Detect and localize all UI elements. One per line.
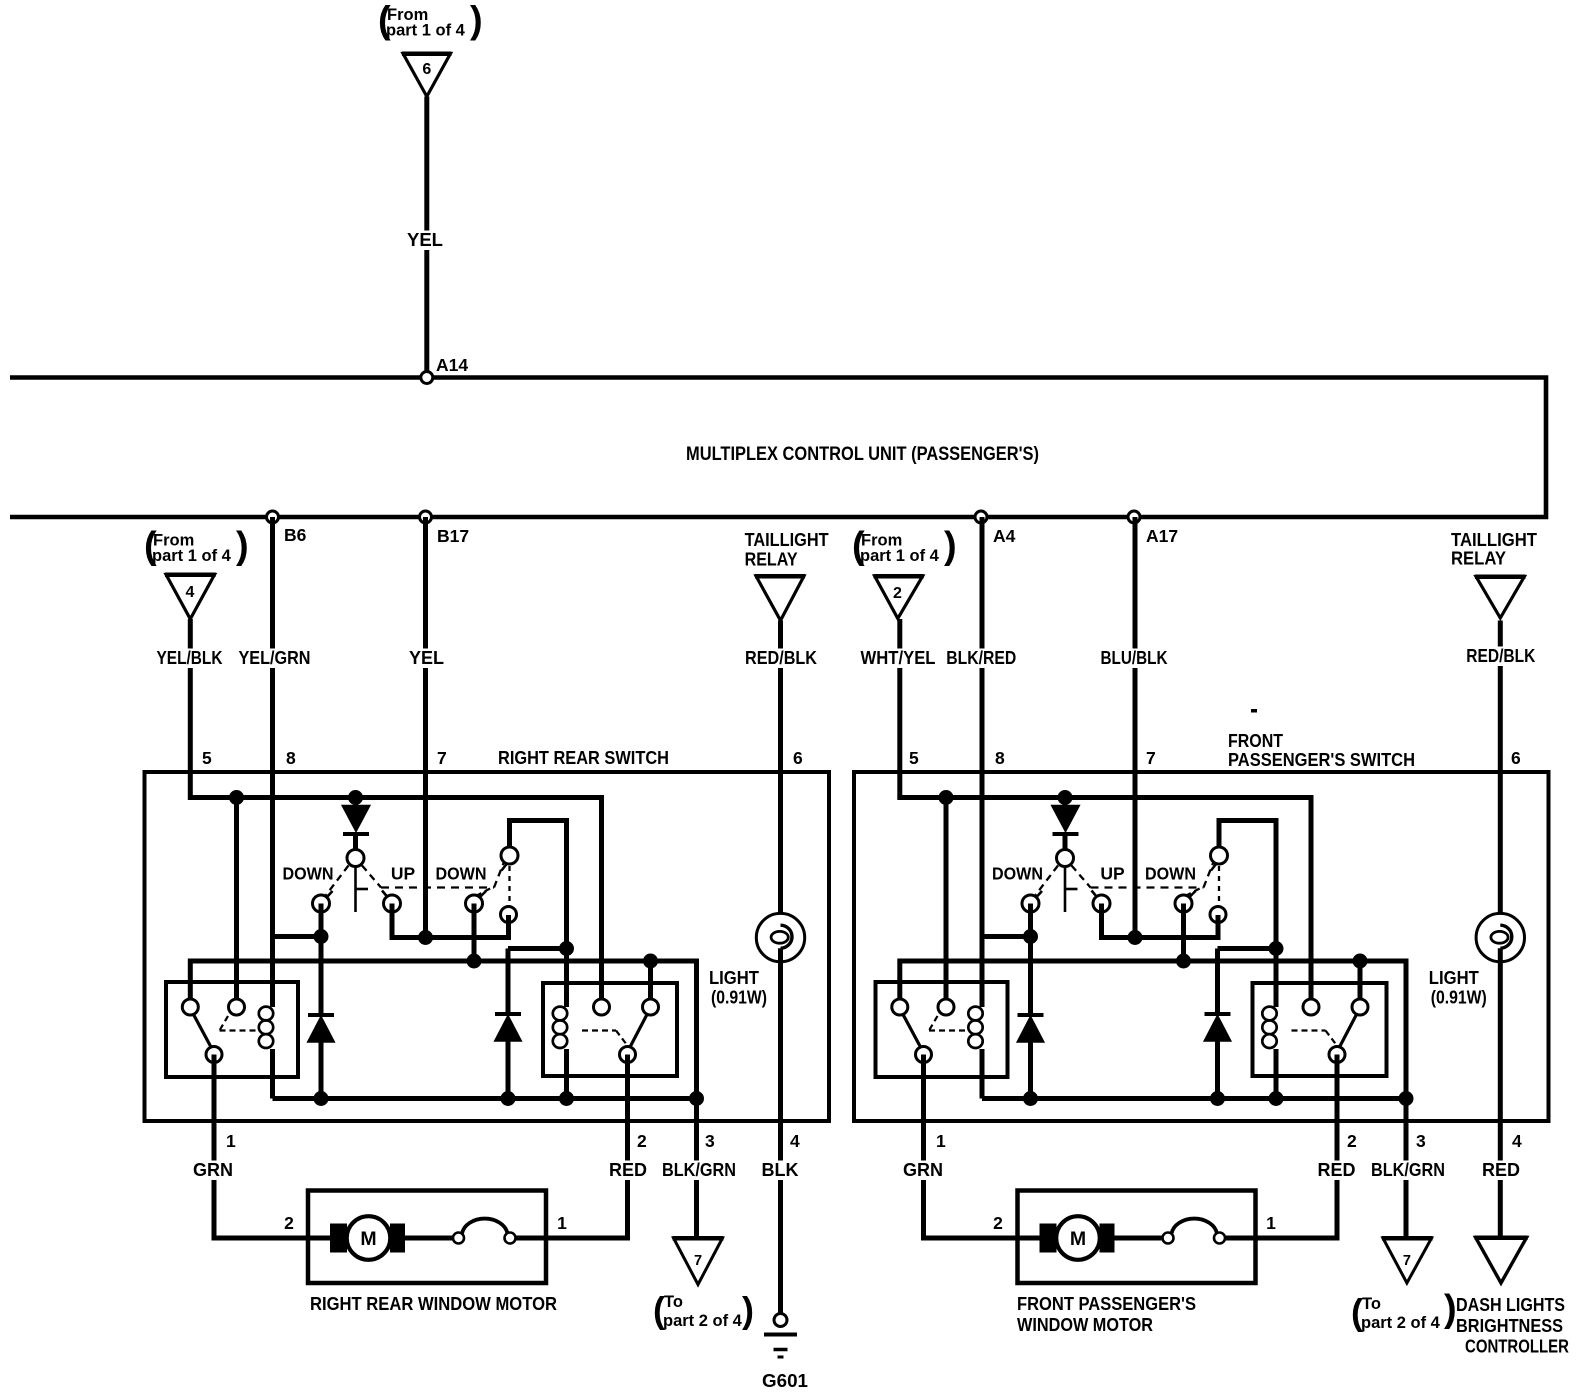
taillight relay triangle right <box>1476 577 1524 619</box>
svg-text:part 1 of 4: part 1 of 4 <box>152 547 232 565</box>
right rear window motor internal wire <box>405 1236 454 1241</box>
wire pin 8 right rear switch (from MCU to relay1 coil) <box>270 517 275 1007</box>
svg-text:GRN: GRN <box>903 1160 943 1180</box>
svg-text:B6: B6 <box>284 525 307 545</box>
wire lamp to pin 4 right rear switch <box>778 948 783 1313</box>
wire pin 1 front passenger's switch (relay1 common to motor) <box>924 1055 1043 1239</box>
wire pin 2 front passenger's switch (relay2 common to motor) <box>1256 1055 1338 1239</box>
svg-text:6: 6 <box>1511 748 1521 768</box>
label RED right (pin4) <box>1480 1161 1522 1181</box>
wire pin 5 front passenger's switch (from connector) + bus to relay 2 left contact <box>900 619 1311 1003</box>
toggle 1 common contact right rear switch <box>347 850 364 867</box>
relay 1 fixed contact right rear switch <box>229 999 245 1015</box>
junction common bus / relay2 contact right rear switch <box>643 954 658 969</box>
svg-text:2: 2 <box>893 585 902 602</box>
label GRN right <box>901 1161 945 1181</box>
svg-text:To: To <box>1362 1295 1381 1313</box>
junction on pin5 bus to relay 1 fixed contact <box>939 790 954 805</box>
wire pin 8 front passenger's switch (from MCU to relay1 coil) <box>980 517 985 1007</box>
relay 2 right contact front passenger's switch <box>1352 999 1368 1015</box>
relay 1 left contact front passenger's switch <box>892 999 908 1015</box>
relay 2 common contact front passenger's switch <box>1329 1047 1345 1063</box>
toggle 1 common contact front passenger's switch <box>1057 850 1074 867</box>
junction toggle1-DOWN / pin8 branch right rear switch <box>314 929 329 944</box>
front passenger's window motor internal wire <box>1115 1236 1164 1241</box>
wire pin 5 right rear switch (from connector) + bus to relay 2 left contact <box>190 619 601 1003</box>
connector triangle 2 <box>875 576 923 619</box>
label BLK left <box>762 1161 798 1181</box>
relay 2 box front passenger's switch <box>1253 983 1387 1076</box>
label RED right (pin2) <box>1316 1161 1358 1181</box>
toggle 2 upper contact front passenger's switch <box>1211 864 1217 871</box>
relay 1 dashed link right rear switch <box>220 1016 229 1031</box>
toggle mechanical dashed linkage front passenger's switch <box>1036 866 1059 896</box>
wire pin 6 front passenger's switch (taillight relay to lamp) <box>1498 621 1503 927</box>
ground G601 <box>774 1314 787 1327</box>
svg-text:7: 7 <box>437 748 447 768</box>
junction common bus / relay2 contact front passenger's switch <box>1353 954 1368 969</box>
toggle 1 DOWN contact right rear switch <box>327 891 333 897</box>
svg-text:1: 1 <box>226 1131 236 1151</box>
front passenger's window motor left brush <box>1040 1224 1057 1253</box>
stray mark above front passenger label <box>1251 709 1257 713</box>
svg-text:(0.91W): (0.91W) <box>711 987 767 1008</box>
right rear window motor left brush <box>330 1224 347 1253</box>
right rear switch box <box>145 772 830 1121</box>
rail junction coil2 right rear switch <box>559 1091 574 1106</box>
svg-text:BLK/RED: BLK/RED <box>946 648 1016 668</box>
toggle 1 actuator link right rear switch <box>354 867 357 913</box>
label BLK/GRN right <box>1368 1161 1448 1181</box>
svg-text:YEL/GRN: YEL/GRN <box>239 648 311 668</box>
svg-text:YEL/BLK: YEL/BLK <box>157 648 223 668</box>
svg-text:RELAY: RELAY <box>745 550 798 570</box>
label YEL (pin7 left) <box>407 649 447 669</box>
toggle 1 UP contact front passenger's switch <box>1092 891 1097 897</box>
rail junction diode2 front passenger's switch <box>1210 1091 1225 1106</box>
svg-text:BLU/BLK: BLU/BLK <box>1101 648 1168 668</box>
svg-text:A14: A14 <box>436 355 468 375</box>
svg-text:A17: A17 <box>1146 526 1178 546</box>
front passenger's window motor thermal breaker <box>1163 1233 1174 1244</box>
toggle 2 lower contact right rear switch <box>501 907 517 923</box>
front passenger's window motor box <box>1018 1191 1256 1284</box>
relay 2 dashed link front passenger's switch <box>1292 1029 1326 1031</box>
wire from toggle2 DOWN contact to common bus right rear switch <box>472 904 477 962</box>
toggle 2 DOWN contact front passenger's switch <box>1190 891 1196 897</box>
left clamping diode (cathode up) right rear switch <box>308 1013 334 1017</box>
svg-text:1: 1 <box>936 1131 946 1151</box>
svg-text:5: 5 <box>202 748 212 768</box>
wire toggle2 upper loop to relay2 coil front passenger's switch <box>1219 821 1276 1008</box>
right rear window motor internal wire right <box>516 1236 547 1241</box>
svg-text:BLK: BLK <box>762 1160 799 1180</box>
svg-text:WHT/YEL: WHT/YEL <box>861 648 936 668</box>
svg-text:DOWN: DOWN <box>283 864 334 884</box>
illumination lamp front passenger's switch <box>1476 913 1524 961</box>
label RED left <box>607 1161 649 1181</box>
common bus wire right rear switch <box>190 961 696 1251</box>
svg-text:): ) <box>742 1290 754 1331</box>
svg-text:A4: A4 <box>993 526 1016 546</box>
svg-text:YEL: YEL <box>409 648 444 668</box>
relay 1 armature blade front passenger's switch <box>903 1014 922 1049</box>
relay 1 box right rear switch <box>166 982 298 1077</box>
relay 1 coil front passenger's switch <box>968 1007 982 1021</box>
svg-text:TAILLIGHT: TAILLIGHT <box>1451 530 1537 550</box>
svg-text:RED: RED <box>1482 1160 1520 1180</box>
relay 2 coil right rear switch <box>553 1007 567 1021</box>
right clamping diode (cathode up) right rear switch <box>506 949 511 1015</box>
junction on pin5 bus to toggle 1 diode <box>1058 790 1073 805</box>
junction pin7 / UP bus right rear switch <box>418 930 433 945</box>
right rear window motor right brush <box>390 1224 405 1253</box>
relay 2 dashed link right rear switch <box>582 1029 616 1031</box>
relay 2 box right rear switch <box>543 983 677 1076</box>
node A17 <box>1128 511 1140 523</box>
junction on pin5 bus to relay 1 fixed contact <box>229 790 244 805</box>
svg-text:BRIGHTNESS: BRIGHTNESS <box>1456 1316 1563 1336</box>
relay 2 left contact right rear switch <box>594 999 610 1015</box>
node A4 <box>975 511 987 523</box>
svg-text:4: 4 <box>1512 1131 1522 1151</box>
junction common bus / toggle2-DOWN front passenger's switch <box>1176 954 1191 969</box>
relay 2 common contact right rear switch <box>620 1047 636 1063</box>
svg-text:5: 5 <box>909 748 919 768</box>
svg-text:part 1 of 4: part 1 of 4 <box>860 547 940 565</box>
svg-text:RED: RED <box>609 1160 647 1180</box>
svg-text:): ) <box>236 525 249 567</box>
toggle 1 actuator link front passenger's switch <box>1064 867 1067 913</box>
wire YEL from connector 6 to node A14 <box>424 97 429 378</box>
svg-text:8: 8 <box>995 748 1005 768</box>
multiplex control unit (passenger's) box <box>10 378 1546 518</box>
toggle 2 lower contact front passenger's switch <box>1210 907 1226 923</box>
relay 1 left contact right rear switch <box>182 999 198 1015</box>
bottom rail wire front passenger's switch <box>982 1096 1406 1101</box>
wire from toggle2 DOWN contact to common bus front passenger's switch <box>1181 904 1186 962</box>
diode (toggle 1 feed, cathode down) front passenger's switch <box>1053 806 1079 831</box>
junction loop / diode2 branch front passenger's switch <box>1269 941 1284 956</box>
node B6 <box>267 511 279 523</box>
svg-text:TAILLIGHT: TAILLIGHT <box>745 530 829 550</box>
diode (toggle 1 feed, cathode down) right rear switch <box>343 806 369 831</box>
svg-text:DOWN: DOWN <box>1145 864 1196 884</box>
svg-text:YEL: YEL <box>407 229 443 250</box>
svg-text:RED/BLK: RED/BLK <box>745 648 817 668</box>
svg-text:GRN: GRN <box>193 1160 233 1180</box>
connector triangle 6 <box>403 54 451 97</box>
wire pin 7 front passenger's switch (from MCU) <box>1133 517 1138 938</box>
wire pin 6 right rear switch (taillight relay to lamp) <box>778 621 783 927</box>
svg-text:7: 7 <box>1146 748 1156 768</box>
svg-text:BLK/GRN: BLK/GRN <box>1371 1160 1445 1180</box>
svg-text:2: 2 <box>993 1213 1003 1233</box>
svg-text:To: To <box>664 1293 683 1311</box>
bottom rail wire right rear switch <box>273 1096 697 1101</box>
svg-text:MULTIPLEX CONTROL UNIT (PASSEN: MULTIPLEX CONTROL UNIT (PASSENGER'S) <box>686 444 1039 465</box>
label RED/BLK left <box>742 649 820 669</box>
svg-text:BLK/GRN: BLK/GRN <box>662 1160 736 1180</box>
relay 2 right contact right rear switch <box>643 999 659 1015</box>
svg-text:2: 2 <box>284 1213 294 1233</box>
junction pin7 / UP bus front passenger's switch <box>1128 930 1143 945</box>
rail junction diode1 front passenger's switch <box>1023 1091 1038 1106</box>
svg-text:RED: RED <box>1317 1160 1355 1180</box>
rail junction diode1 right rear switch <box>314 1091 329 1106</box>
svg-text:RIGHT REAR SWITCH: RIGHT REAR SWITCH <box>498 748 669 768</box>
node A14 <box>421 372 433 384</box>
front passenger's window motor right brush <box>1100 1224 1115 1253</box>
svg-text:6: 6 <box>793 748 803 768</box>
right clamping diode (cathode up) front passenger's switch <box>1215 949 1220 1015</box>
wire from toggle1 DOWN contact through left diode to rail right rear switch <box>319 904 324 1016</box>
junction common bus to pin 3 front passenger's switch <box>1399 1091 1414 1106</box>
junction toggle1-DOWN / pin8 branch front passenger's switch <box>1023 929 1038 944</box>
svg-text:M: M <box>360 1228 376 1250</box>
svg-text:part 2 of 4: part 2 of 4 <box>663 1312 743 1330</box>
label BLU/BLK <box>1098 649 1171 669</box>
relay 1 common contact front passenger's switch <box>916 1047 932 1063</box>
relay 1 armature blade right rear switch <box>193 1014 212 1049</box>
label GRN left <box>191 1161 235 1181</box>
left clamping diode (cathode up) front passenger's switch <box>1018 1013 1044 1017</box>
svg-text:G601: G601 <box>762 1370 808 1391</box>
rail junction diode2 right rear switch <box>501 1091 516 1106</box>
wire toggle2 upper loop to relay2 coil right rear switch <box>510 821 567 1008</box>
relay 2 armature blade front passenger's switch <box>1339 1014 1357 1049</box>
svg-text:PASSENGER'S SWITCH: PASSENGER'S SWITCH <box>1228 750 1415 770</box>
svg-text:M: M <box>1070 1228 1086 1250</box>
svg-text:4: 4 <box>790 1131 800 1151</box>
relay 1 box front passenger's switch <box>876 982 1008 1077</box>
svg-text:WINDOW MOTOR: WINDOW MOTOR <box>1017 1315 1153 1335</box>
svg-text:6: 6 <box>422 61 431 78</box>
svg-text:RED/BLK: RED/BLK <box>1466 646 1535 666</box>
wire pin 2 right rear switch (relay2 common to motor) <box>546 1055 628 1239</box>
label BLK/GRN left <box>659 1161 739 1181</box>
taillight relay triangle left <box>756 576 804 621</box>
svg-text:): ) <box>470 0 483 42</box>
svg-text:2: 2 <box>1347 1131 1357 1151</box>
wire lamp to pin 4 front passenger's switch <box>1498 948 1503 1248</box>
label WHT/YEL <box>858 649 939 669</box>
toggle 2 upper contact right rear switch <box>502 864 508 871</box>
connector triangle 7 right <box>1383 1238 1432 1283</box>
svg-text:RELAY: RELAY <box>1451 549 1506 569</box>
label RED/BLK right <box>1463 647 1538 667</box>
front passenger's window motor armature M <box>1056 1216 1100 1260</box>
relay 2 coil front passenger's switch <box>1262 1007 1276 1021</box>
svg-text:): ) <box>1444 1288 1457 1330</box>
junction on pin5 bus to toggle 1 diode <box>348 790 363 805</box>
svg-text:3: 3 <box>705 1131 715 1151</box>
right rear window motor armature M <box>347 1216 391 1260</box>
svg-text:RIGHT REAR WINDOW MOTOR: RIGHT REAR WINDOW MOTOR <box>310 1294 557 1314</box>
svg-text:4: 4 <box>186 584 195 601</box>
label YEL/GRN <box>236 649 314 669</box>
svg-text:1: 1 <box>557 1213 567 1233</box>
svg-text:B17: B17 <box>437 526 469 546</box>
relay 1 coil right rear switch <box>259 1007 273 1021</box>
label YEL <box>404 231 446 251</box>
wire from toggle1 UP contact to toggle2 lower contact front passenger's switch <box>1102 904 1219 938</box>
svg-text:DOWN: DOWN <box>436 864 487 884</box>
label BLK/RED <box>943 649 1019 669</box>
svg-text:DOWN: DOWN <box>992 864 1043 884</box>
svg-text:part 1 of 4: part 1 of 4 <box>386 22 466 40</box>
svg-text:): ) <box>944 525 957 567</box>
junction common bus to pin 3 right rear switch <box>689 1091 704 1106</box>
svg-text:FRONT PASSENGER'S: FRONT PASSENGER'S <box>1017 1294 1196 1314</box>
svg-text:7: 7 <box>1403 1253 1411 1269</box>
dash lights brightness controller connector triangle <box>1476 1238 1527 1284</box>
toggle 1 UP contact right rear switch <box>382 891 387 897</box>
svg-text:CONTROLLER: CONTROLLER <box>1465 1337 1569 1357</box>
wire pin 7 right rear switch (from MCU) <box>423 517 428 938</box>
wire from toggle1 UP contact to toggle2 lower contact right rear switch <box>392 904 509 938</box>
relay 1 common contact right rear switch <box>206 1047 222 1063</box>
front passenger's switch box <box>854 772 1549 1121</box>
connector triangle 4 <box>166 575 215 620</box>
svg-text:LIGHT: LIGHT <box>1429 967 1480 988</box>
right rear window motor thermal breaker <box>453 1233 464 1244</box>
wire pin 1 right rear switch (relay1 common to motor) <box>214 1055 333 1239</box>
relay 2 left contact front passenger's switch <box>1303 999 1319 1015</box>
svg-text:UP: UP <box>1100 864 1125 884</box>
svg-text:8: 8 <box>286 748 296 768</box>
junction loop / diode2 branch right rear switch <box>559 941 574 956</box>
illumination lamp right rear switch <box>756 913 804 961</box>
rail junction coil2 front passenger's switch <box>1269 1091 1284 1106</box>
toggle 1 DOWN contact front passenger's switch <box>1037 891 1043 897</box>
junction common bus / toggle2-DOWN right rear switch <box>467 954 482 969</box>
svg-text:UP: UP <box>391 864 416 884</box>
svg-text:1: 1 <box>1266 1213 1276 1233</box>
common bus wire front passenger's switch <box>900 961 1406 1251</box>
svg-text:(0.91W): (0.91W) <box>1431 987 1487 1008</box>
front passenger's window motor internal wire right <box>1225 1236 1256 1241</box>
svg-text:LIGHT: LIGHT <box>709 967 760 988</box>
toggle mechanical dashed linkage right rear switch <box>326 866 349 896</box>
svg-text:part 2 of 4: part 2 of 4 <box>1361 1314 1441 1332</box>
toggle 2 DOWN contact right rear switch <box>480 891 486 897</box>
relay 1 fixed contact front passenger's switch <box>938 999 954 1015</box>
connector triangle 7 left <box>674 1238 723 1285</box>
svg-text:FRONT: FRONT <box>1228 731 1283 751</box>
svg-text:2: 2 <box>637 1131 647 1151</box>
node B17 <box>420 511 432 523</box>
relay 1 dashed link front passenger's switch <box>929 1016 938 1031</box>
label YEL/BLK <box>154 649 226 669</box>
svg-text:7: 7 <box>694 1253 702 1269</box>
svg-text:3: 3 <box>1416 1131 1426 1151</box>
wire from toggle1 DOWN contact through left diode to rail front passenger's switch <box>1028 904 1033 1016</box>
relay 2 armature blade right rear switch <box>630 1014 648 1049</box>
svg-text:DASH LIGHTS: DASH LIGHTS <box>1456 1295 1565 1315</box>
right rear window motor box <box>308 1191 546 1284</box>
